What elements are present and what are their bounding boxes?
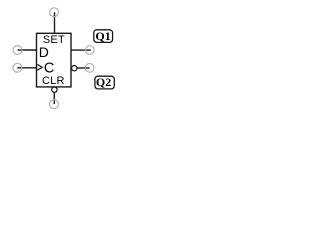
pin circle C bbox=[13, 63, 22, 72]
flip-flop U1 body bbox=[37, 33, 72, 87]
wire SET pin bbox=[54, 12, 56, 33]
svg-text:C: C bbox=[44, 60, 54, 76]
wire C input bbox=[17, 67, 36, 69]
pin circle CLR bbox=[50, 100, 59, 109]
svg-text:D: D bbox=[39, 44, 49, 60]
node Q2 label box bbox=[95, 75, 114, 89]
pin circle Q bbox=[86, 46, 95, 55]
pin circle Qbar bbox=[85, 64, 94, 73]
wire Qbar output bbox=[77, 67, 90, 69]
inversion bubble CLR bbox=[52, 87, 57, 92]
node Q1 label box bbox=[94, 29, 113, 43]
wire D input bbox=[18, 49, 37, 51]
svg-text:CLR: CLR bbox=[42, 75, 65, 87]
svg-text:Q2: Q2 bbox=[96, 75, 111, 89]
wire CLR pin bbox=[53, 92, 55, 104]
wire Q output bbox=[71, 49, 91, 51]
pin circle SET bbox=[50, 8, 59, 17]
pin circle D bbox=[13, 46, 22, 55]
svg-text:Q1: Q1 bbox=[95, 29, 110, 43]
clock triangle bbox=[37, 64, 42, 70]
inversion bubble Qbar bbox=[72, 66, 77, 71]
